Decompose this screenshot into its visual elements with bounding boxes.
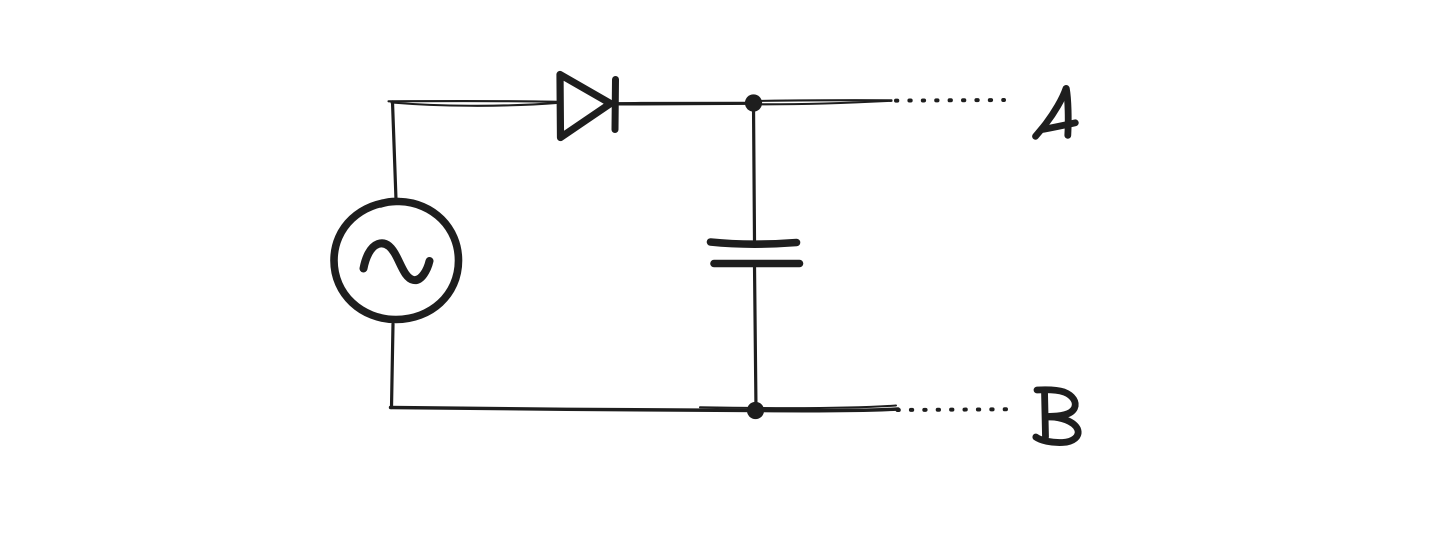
ac source V1 (334, 201, 459, 319)
node junction top (745, 94, 762, 111)
node label A (1036, 89, 1076, 137)
capacitor C1 (711, 242, 800, 264)
node junction bottom (747, 402, 764, 419)
node label B (1036, 390, 1078, 443)
diode D1 (560, 75, 616, 138)
dotted lead to B (898, 407, 1007, 412)
wire node to lead end A (754, 100, 892, 104)
bottom wire B (391, 406, 899, 411)
wire node to capacitor (754, 104, 755, 240)
wire capacitor to bottom node (755, 266, 757, 410)
wire source top to corner (393, 102, 397, 200)
wire diode to node (612, 103, 752, 105)
wire source bottom to corner (392, 324, 394, 408)
dotted lead to A (896, 98, 1004, 103)
wire top horizontal to diode (389, 101, 559, 106)
